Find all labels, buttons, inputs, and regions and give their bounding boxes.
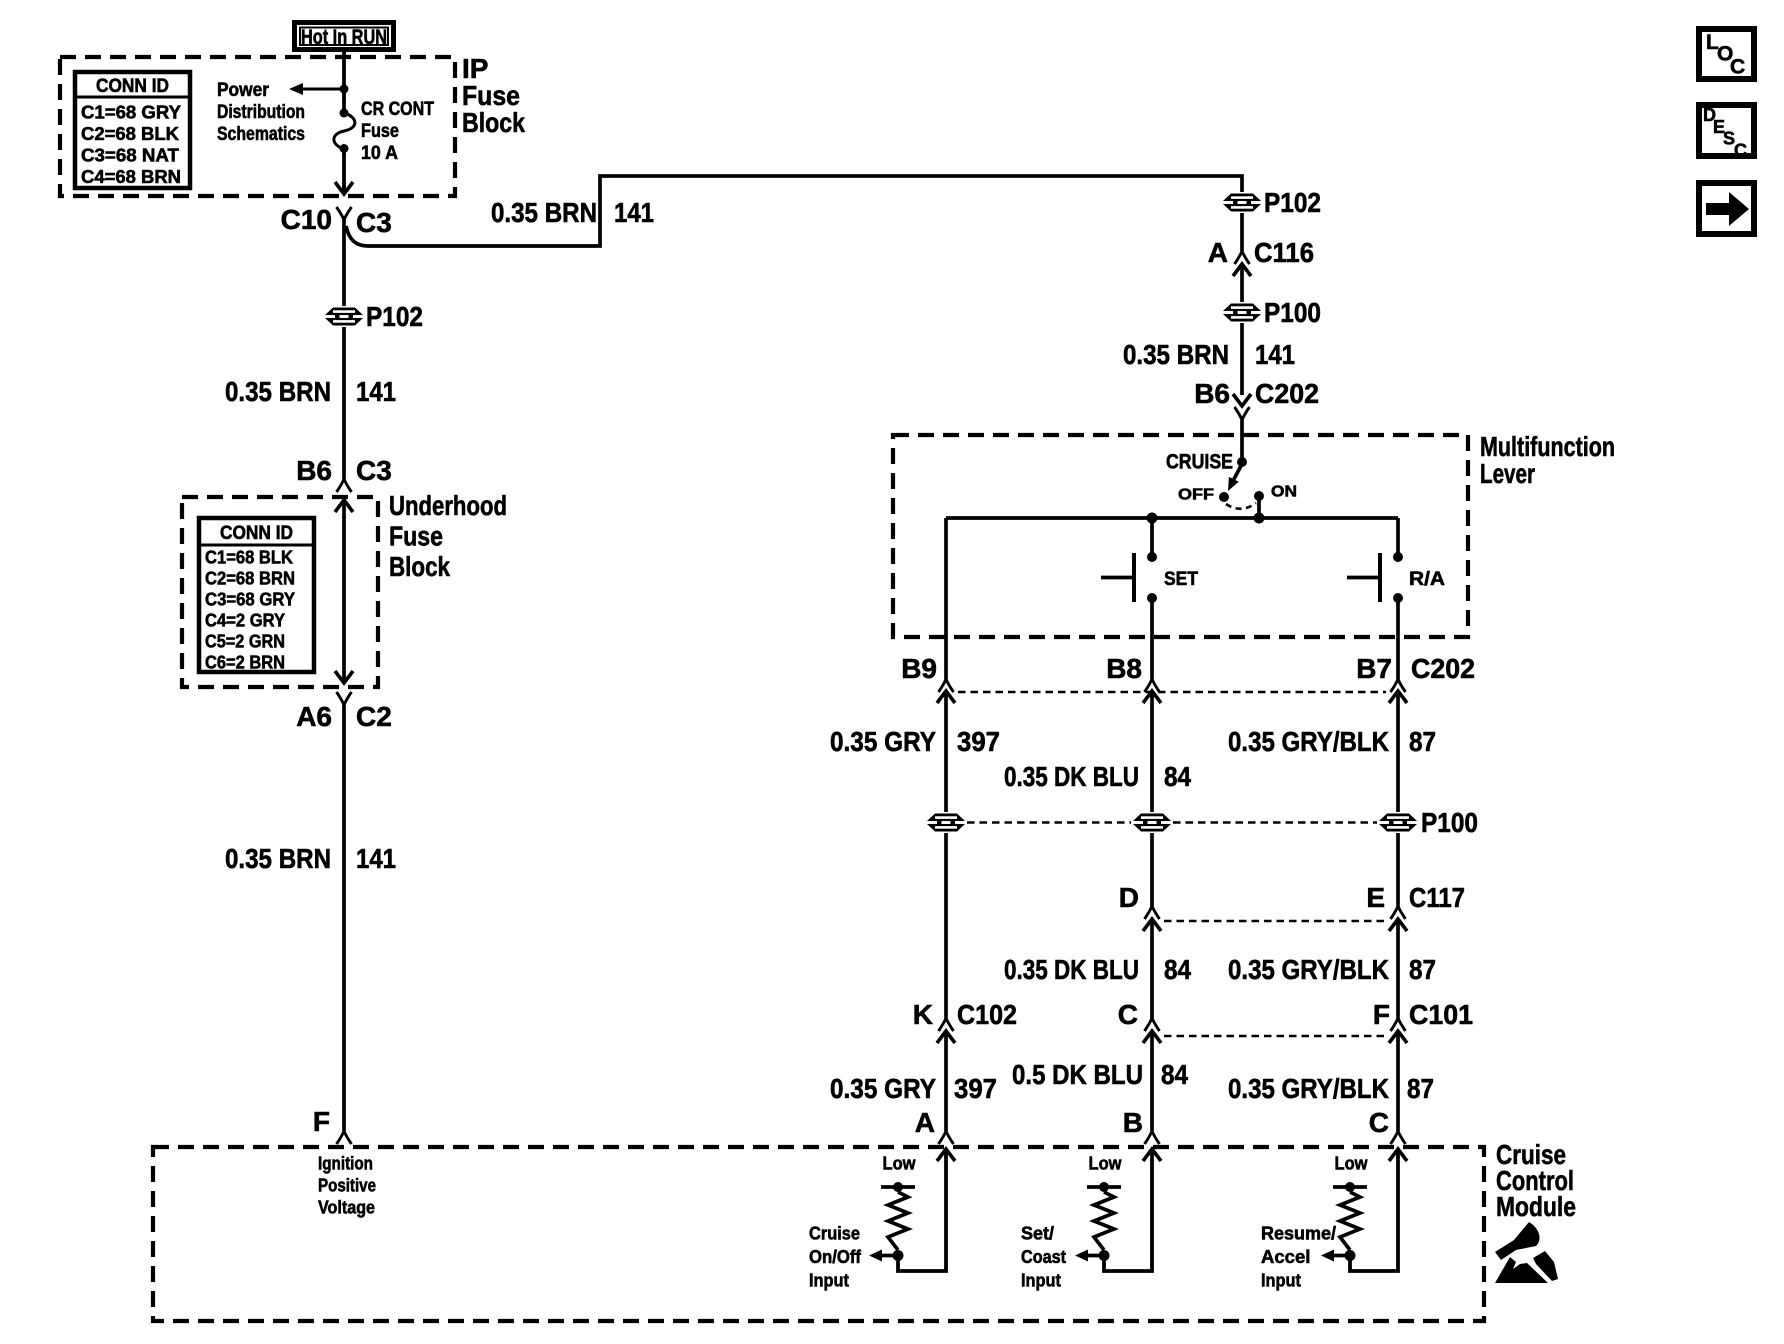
SET button actuator <box>1101 576 1132 580</box>
label A (pin) <box>1208 237 1228 268</box>
underhood output male terminal (arrow) <box>335 671 353 683</box>
wire: underhood block to cruise module (0.35 BRN 141) <box>342 705 346 1131</box>
label ON <box>1271 484 1297 501</box>
svg-text:B9: B9 <box>901 653 937 684</box>
Set/Coast Input input tap arrow <box>1075 1250 1104 1262</box>
connector B6/C202 female fork <box>1235 407 1250 420</box>
svg-text:0.35 GRY: 0.35 GRY <box>830 726 936 757</box>
label C101 <box>1409 999 1473 1030</box>
connector B6/C202 male arrow (down) <box>1233 394 1251 406</box>
LOC navigation icon <box>1699 29 1754 79</box>
ESD sensitive device symbol <box>1495 1222 1558 1283</box>
wire: C116 to P100 <box>1240 264 1244 302</box>
svg-text:P102: P102 <box>366 301 423 332</box>
wire: C117 to C101 (DK BLU) <box>1150 919 1154 1018</box>
svg-text:84: 84 <box>1164 954 1191 985</box>
svg-text:Low: Low <box>1089 1153 1123 1174</box>
wire: P102 to C116 <box>1240 213 1244 251</box>
switch ON contact <box>1254 491 1264 501</box>
svg-text:Fuse: Fuse <box>361 121 399 142</box>
switch OFF contact <box>1219 492 1229 502</box>
wire through underhood fuse block <box>342 500 346 681</box>
SET button upper contact <box>1147 552 1157 562</box>
module pin A female fork <box>939 1131 954 1144</box>
IP Fuse Block label <box>462 53 525 138</box>
svg-text:C: C <box>1730 56 1745 79</box>
connector C117 gang line (dashed) <box>1164 920 1386 923</box>
label F (module pin) <box>313 1106 330 1137</box>
label K (pin) <box>913 999 933 1030</box>
svg-text:0.35 BRN: 0.35 BRN <box>491 197 597 228</box>
label Low (Cruise On/Off Input) <box>883 1153 917 1174</box>
power feed "Hot In RUN" box <box>295 23 394 50</box>
R/A button upper contact <box>1393 552 1403 562</box>
label CRUISE <box>1166 451 1233 474</box>
svg-text:0.35 GRY/BLK: 0.35 GRY/BLK <box>1228 954 1389 985</box>
grommet P100 (branch 2) <box>1133 814 1171 832</box>
svg-text:0.35 GRY/BLK: 0.35 GRY/BLK <box>1228 726 1389 757</box>
label B6 (lever pin) <box>1194 378 1230 409</box>
module pin Set/Coast Input male arrow (inside) <box>1143 1149 1161 1161</box>
wire: C101 to module pin C <box>1396 1031 1400 1131</box>
wire label 0.35 DK BLU (lower) <box>1004 954 1139 985</box>
junction at bottom of Set/Coast Input sense resistor <box>1099 1250 1110 1261</box>
wire: P100 to C117 (DK BLU) <box>1150 833 1154 906</box>
label Low (Resume/Accel Input) <box>1335 1153 1369 1174</box>
svg-text:C: C <box>1734 141 1747 161</box>
label C (module pin) <box>1369 1107 1389 1138</box>
connector C202 pin B8 (fork+arrow) <box>1143 679 1161 703</box>
wire: B9 to P100 <box>944 691 948 812</box>
circuit number 397 (bottom) <box>954 1073 997 1104</box>
svg-text:Block: Block <box>389 551 450 582</box>
svg-text:Distribution: Distribution <box>217 102 305 123</box>
svg-text:C2: C2 <box>356 701 392 732</box>
label Cruise On/Off Input <box>809 1223 862 1291</box>
module pin Cruise On/Off Input male arrow (inside) <box>937 1149 955 1161</box>
wire: ON contact to bus <box>1257 496 1261 518</box>
wire: P102 to underhood fuse block <box>342 327 346 479</box>
label C2 <box>356 701 392 732</box>
label B6 (underhood input pin) <box>296 455 332 486</box>
circuit number 87 (upper) <box>1409 726 1436 757</box>
wire label 0.35 DK BLU (upper) <box>1004 761 1139 792</box>
svg-text:Low: Low <box>1335 1153 1369 1174</box>
svg-text:Low: Low <box>883 1153 917 1174</box>
wire: Hot In RUN down to fuse <box>342 52 346 113</box>
svg-text:Block: Block <box>462 107 525 138</box>
svg-text:10 A: 10 A <box>361 143 398 164</box>
label C202 (bottom) <box>1411 653 1475 684</box>
label C3 (IP side) <box>356 207 392 238</box>
svg-text:B6: B6 <box>296 455 332 486</box>
svg-text:On/Off: On/Off <box>809 1246 862 1267</box>
circuit number 84 (upper) <box>1164 761 1191 792</box>
SET pushbutton plate <box>1132 553 1136 602</box>
circuit number 84 (bottom) <box>1161 1059 1188 1090</box>
svg-text:141: 141 <box>356 376 396 407</box>
svg-text:84: 84 <box>1161 1059 1188 1090</box>
label SET <box>1164 568 1198 590</box>
svg-text:Hot In RUN: Hot In RUN <box>301 26 387 49</box>
connector A6/C2 female fork <box>337 692 352 705</box>
arrow to Power Distribution Schematics <box>289 83 344 95</box>
svg-text:Power: Power <box>217 80 270 101</box>
connector B6/C3 male arrow <box>335 500 353 512</box>
wire: C101 to module pin B <box>1150 1031 1154 1131</box>
R/A button lower contact <box>1393 593 1403 603</box>
sense resistor (Set/Coast Input) <box>1094 1192 1114 1250</box>
svg-text:Ignition: Ignition <box>318 1153 373 1174</box>
label B7 <box>1356 653 1392 684</box>
fuse value label CR CONT Fuse 10 A <box>361 99 434 164</box>
svg-text:K: K <box>913 999 933 1030</box>
svg-text:Resume/: Resume/ <box>1261 1223 1336 1244</box>
svg-text:141: 141 <box>1255 339 1295 370</box>
svg-text:A6: A6 <box>296 701 332 732</box>
label C202 (top) <box>1255 378 1319 409</box>
svg-text:C: C <box>1369 1107 1389 1138</box>
grommet P100 (branch 1) <box>927 814 965 832</box>
label P102 (left) <box>366 301 423 332</box>
Cruise Control Module enclosure (dashed) <box>153 1147 1484 1321</box>
svg-text:CONN ID: CONN ID <box>220 523 293 544</box>
connector C202 pin B7 (fork+arrow) <box>1389 679 1407 703</box>
wire: R/A button to B7 <box>1396 598 1400 679</box>
connector C202 pin B9 (fork+arrow) <box>937 679 955 703</box>
svg-text:87: 87 <box>1409 954 1436 985</box>
svg-text:Input: Input <box>1021 1269 1061 1290</box>
label OFF <box>1178 487 1214 504</box>
svg-text:0.35 DK BLU: 0.35 DK BLU <box>1004 954 1139 985</box>
grommet P100 (right feed) <box>1223 304 1261 322</box>
svg-text:87: 87 <box>1407 1073 1434 1104</box>
label F (pin C101) <box>1373 999 1390 1030</box>
Multifunction Lever label <box>1480 431 1615 489</box>
svg-text:0.5 DK BLU: 0.5 DK BLU <box>1012 1059 1143 1090</box>
connector A/C116 male arrow <box>1233 264 1251 276</box>
svg-text:0.35 BRN: 0.35 BRN <box>1123 339 1229 370</box>
label B9 <box>901 653 937 684</box>
svg-text:Underhood: Underhood <box>389 490 507 521</box>
circuit number 141 (left lower) <box>356 843 396 874</box>
wire label 0.35 BRN (right) <box>1123 339 1229 370</box>
svg-text:Cruise: Cruise <box>809 1223 860 1244</box>
label D (pin) <box>1119 882 1139 913</box>
svg-text:84: 84 <box>1164 761 1191 792</box>
svg-text:C2=68 BLK: C2=68 BLK <box>81 123 180 144</box>
cruise on/off switch blade <box>1228 464 1242 491</box>
Cruise On/Off Input input tap arrow <box>869 1250 898 1262</box>
svg-text:CRUISE: CRUISE <box>1166 451 1233 474</box>
wire: C117 to C101 (GRY/BLK) <box>1396 919 1400 1018</box>
circuit number 141 (left upper) <box>356 376 396 407</box>
wire label 0.35 BRN (left upper) <box>225 376 331 407</box>
Underhood Fuse Block label <box>389 490 507 582</box>
connector C202 gang line (dashed) <box>958 691 1386 694</box>
svg-text:CONN ID: CONN ID <box>96 76 169 97</box>
module pin C female fork <box>1391 1131 1406 1144</box>
svg-text:C202: C202 <box>1255 378 1319 409</box>
label C (pin) <box>1118 999 1138 1030</box>
wire: fuse to IP block output <box>342 149 346 193</box>
svg-text:Module: Module <box>1496 1191 1576 1222</box>
wire label 0.35 GRY/BLK (upper) <box>1228 726 1389 757</box>
connector C102 pin K (fork+arrow) <box>937 1018 955 1043</box>
svg-text:0.35 GRY/BLK: 0.35 GRY/BLK <box>1228 1073 1389 1104</box>
svg-text:Schematics: Schematics <box>217 124 305 145</box>
wire: SET button to B8 <box>1150 598 1154 679</box>
svg-text:87: 87 <box>1409 726 1436 757</box>
connector C101 pin C (fork+arrow) <box>1143 1018 1161 1043</box>
grommet P100 (branch 3) <box>1379 814 1417 832</box>
svg-text:D: D <box>1119 882 1139 913</box>
svg-text:B6: B6 <box>1194 378 1230 409</box>
wire: P100 to C102 (GRY, no break) <box>944 833 948 1018</box>
svg-text:C3: C3 <box>356 455 392 486</box>
connector C117 pin D (fork+arrow) <box>1143 906 1161 931</box>
circuit number 141 (top) <box>614 197 654 228</box>
wire: B8 to P100 <box>1150 691 1154 812</box>
svg-text:C6=2 BRN: C6=2 BRN <box>205 653 285 673</box>
IP fuse block CONN ID table <box>75 72 190 188</box>
label C3 (underhood connector) <box>356 455 392 486</box>
svg-text:Set/: Set/ <box>1021 1223 1054 1244</box>
Resume/Accel Input input tap arrow <box>1321 1250 1350 1262</box>
svg-text:Coast: Coast <box>1021 1246 1066 1267</box>
label B8 <box>1106 653 1142 684</box>
Power Distribution Schematics reference label <box>217 80 305 145</box>
junction at bottom of Cruise On/Off Input sense resistor <box>893 1250 904 1261</box>
svg-text:C10: C10 <box>281 204 332 235</box>
svg-text:C117: C117 <box>1409 882 1465 913</box>
label Low (Set/Coast Input) <box>1089 1153 1123 1174</box>
wire: pin into module / return loop (Set/Coast Input) <box>1104 1149 1152 1271</box>
underhood CONN ID table <box>199 518 314 673</box>
lever internal bus wire <box>946 516 1398 520</box>
wire label 0.35 BRN (left lower) <box>225 843 331 874</box>
svg-text:F: F <box>1373 999 1390 1030</box>
svg-text:E: E <box>1366 882 1385 913</box>
label Set/Coast Input <box>1021 1223 1066 1291</box>
svg-text:C102: C102 <box>957 999 1017 1030</box>
connector C101 gang line (dashed) <box>1164 1035 1386 1038</box>
wire label 0.35 GRY/BLK (lower) <box>1228 954 1389 985</box>
switch travel arc (dashed) <box>1226 503 1256 509</box>
svg-text:0.35 GRY: 0.35 GRY <box>830 1073 936 1104</box>
wire 0.35 BRN 141: C10/C3 to right P102 <box>346 176 1242 246</box>
label B (module pin) <box>1123 1107 1143 1138</box>
svg-text:C5=2 GRN: C5=2 GRN <box>205 632 285 652</box>
circuit number 87 (bottom) <box>1407 1073 1434 1104</box>
junction: ON to bus <box>1254 513 1265 524</box>
connector pin F female fork <box>337 1131 352 1144</box>
svg-text:ON: ON <box>1271 484 1297 501</box>
label A6 <box>296 701 332 732</box>
svg-text:A: A <box>1208 237 1228 268</box>
svg-text:C101: C101 <box>1409 999 1473 1030</box>
label E (pin) <box>1366 882 1385 913</box>
wire: bus down to SET button <box>1150 518 1154 557</box>
sense resistor (Resume/Accel Input) <box>1340 1192 1360 1250</box>
resistor top junction (Low rail, Cruise On/Off Input) <box>881 1182 915 1192</box>
IP Fuse Block enclosure (dashed) <box>60 57 455 196</box>
wire: pin into module / return loop (Cruise On/Off Input) <box>898 1149 946 1271</box>
svg-text:Input: Input <box>1261 1269 1301 1290</box>
svg-text:Positive: Positive <box>318 1175 376 1196</box>
svg-text:C3=68 GRY: C3=68 GRY <box>205 590 295 610</box>
svg-text:C116: C116 <box>1254 237 1314 268</box>
next-page arrow icon <box>1699 183 1754 234</box>
svg-text:B: B <box>1123 1107 1143 1138</box>
label C10 <box>281 204 332 235</box>
junction at bottom of Resume/Accel Input sense resistor <box>1345 1250 1356 1261</box>
sense resistor (Cruise On/Off Input) <box>888 1192 908 1250</box>
svg-text:C: C <box>1118 999 1138 1030</box>
label Resume/Accel Input <box>1261 1223 1336 1291</box>
svg-text:OFF: OFF <box>1178 487 1214 504</box>
svg-text:141: 141 <box>356 843 396 874</box>
R/A button actuator <box>1347 576 1378 580</box>
resistor top junction (Low rail, Resume/Accel Input) <box>1333 1182 1367 1192</box>
IP block output male terminal (arrow) <box>335 182 353 194</box>
svg-text:141: 141 <box>614 197 654 228</box>
label A (module pin) <box>915 1107 935 1138</box>
wire label 0.35 BRN (top) <box>491 197 597 228</box>
wire: P100 to C117 (GRY/BLK) <box>1396 833 1400 906</box>
wire: B7 to P100 <box>1396 691 1400 812</box>
Cruise Control Module label <box>1496 1139 1576 1222</box>
svg-text:B7: B7 <box>1356 653 1392 684</box>
svg-text:397: 397 <box>957 726 1000 757</box>
connector C10/C3 female fork <box>337 207 352 220</box>
svg-text:SET: SET <box>1164 568 1198 590</box>
wire label 0.35 GRY/BLK (bottom) <box>1228 1073 1389 1104</box>
SET button lower contact <box>1147 593 1157 603</box>
svg-text:Voltage: Voltage <box>318 1197 375 1218</box>
svg-text:0.35 BRN: 0.35 BRN <box>225 376 331 407</box>
svg-text:P102: P102 <box>1264 187 1321 218</box>
switch common node (CRUISE) <box>1237 457 1247 467</box>
module pin B female fork <box>1145 1131 1160 1144</box>
svg-text:C1=68 BLK: C1=68 BLK <box>205 548 293 568</box>
grommet P102 (left) <box>325 308 363 326</box>
svg-text:CR CONT: CR CONT <box>361 99 434 120</box>
svg-text:C4=2 GRY: C4=2 GRY <box>205 611 285 631</box>
svg-text:Input: Input <box>809 1269 849 1290</box>
Multifunction Lever enclosure (dashed) <box>893 435 1468 637</box>
svg-text:Accel: Accel <box>1261 1246 1310 1267</box>
svg-text:Lever: Lever <box>1480 458 1535 489</box>
label P100 (right feed) <box>1264 297 1321 328</box>
svg-text:P100: P100 <box>1264 297 1321 328</box>
svg-text:0.35 DK BLU: 0.35 DK BLU <box>1004 761 1139 792</box>
circuit number 87 (lower) <box>1409 954 1436 985</box>
svg-text:A: A <box>915 1107 935 1138</box>
svg-text:C4=68 BRN: C4=68 BRN <box>81 166 181 187</box>
wire: C10/C3 down to P102 grommet <box>342 220 346 306</box>
label Ignition Positive Voltage <box>318 1153 376 1218</box>
svg-text:B8: B8 <box>1106 653 1142 684</box>
Underhood Fuse Block enclosure (dashed) <box>182 497 378 687</box>
svg-text:C3=68 NAT: C3=68 NAT <box>81 145 180 166</box>
svg-text:397: 397 <box>954 1073 997 1104</box>
svg-text:C2=68 BRN: C2=68 BRN <box>205 569 295 589</box>
connector B6/C3 female fork <box>337 479 352 492</box>
wire: bus down to R/A button <box>1396 518 1400 557</box>
circuit number 84 (lower) <box>1164 954 1191 985</box>
fuse CR CONT 10 A (element) <box>334 109 355 154</box>
connector A/C116 female fork <box>1235 251 1250 264</box>
wire label 0.35 GRY (bottom) <box>830 1073 936 1104</box>
junction node to Power Distribution arrow <box>340 85 349 94</box>
wire: P100 to C202 <box>1240 323 1244 395</box>
svg-text:C3: C3 <box>356 207 392 238</box>
R/A pushbutton plate <box>1378 553 1382 602</box>
svg-text:0.35 BRN: 0.35 BRN <box>225 843 331 874</box>
connector C117 pin E (fork+arrow) <box>1389 906 1407 931</box>
DESC navigation icon <box>1699 105 1754 161</box>
P100 gang line (dashed) <box>967 821 1377 824</box>
svg-text:R/A: R/A <box>1409 568 1445 590</box>
wire: pin into module / return loop (Resume/Accel Input) <box>1350 1149 1398 1271</box>
label R/A <box>1409 568 1445 590</box>
svg-text:C202: C202 <box>1411 653 1475 684</box>
label P100 (gang) <box>1421 807 1478 838</box>
junction: SET branch on bus <box>1147 513 1158 524</box>
resistor top junction (Low rail, Set/Coast Input) <box>1087 1182 1121 1192</box>
wire label 0.35 GRY (upper) <box>830 726 936 757</box>
connector C101 pin F (fork+arrow) <box>1389 1018 1407 1043</box>
wire label 0.5 DK BLU (bottom) <box>1012 1059 1143 1090</box>
svg-text:Fuse: Fuse <box>389 521 443 552</box>
svg-text:P100: P100 <box>1421 807 1478 838</box>
label P102 (right) <box>1264 187 1321 218</box>
label C116 <box>1254 237 1314 268</box>
wire: bus down to B9 <box>944 518 948 679</box>
circuit number 141 (right) <box>1255 339 1295 370</box>
wire: C202 into lever switch <box>1240 420 1244 462</box>
label C117 <box>1409 882 1465 913</box>
svg-text:C1=68 GRY: C1=68 GRY <box>81 102 182 123</box>
wire: C102 to module pin A <box>944 1031 948 1131</box>
label C102 <box>957 999 1017 1030</box>
grommet P102 (right) <box>1223 194 1261 212</box>
module pin Resume/Accel Input male arrow (inside) <box>1389 1149 1407 1161</box>
svg-text:F: F <box>313 1106 330 1137</box>
circuit number 397 (upper) <box>957 726 1000 757</box>
